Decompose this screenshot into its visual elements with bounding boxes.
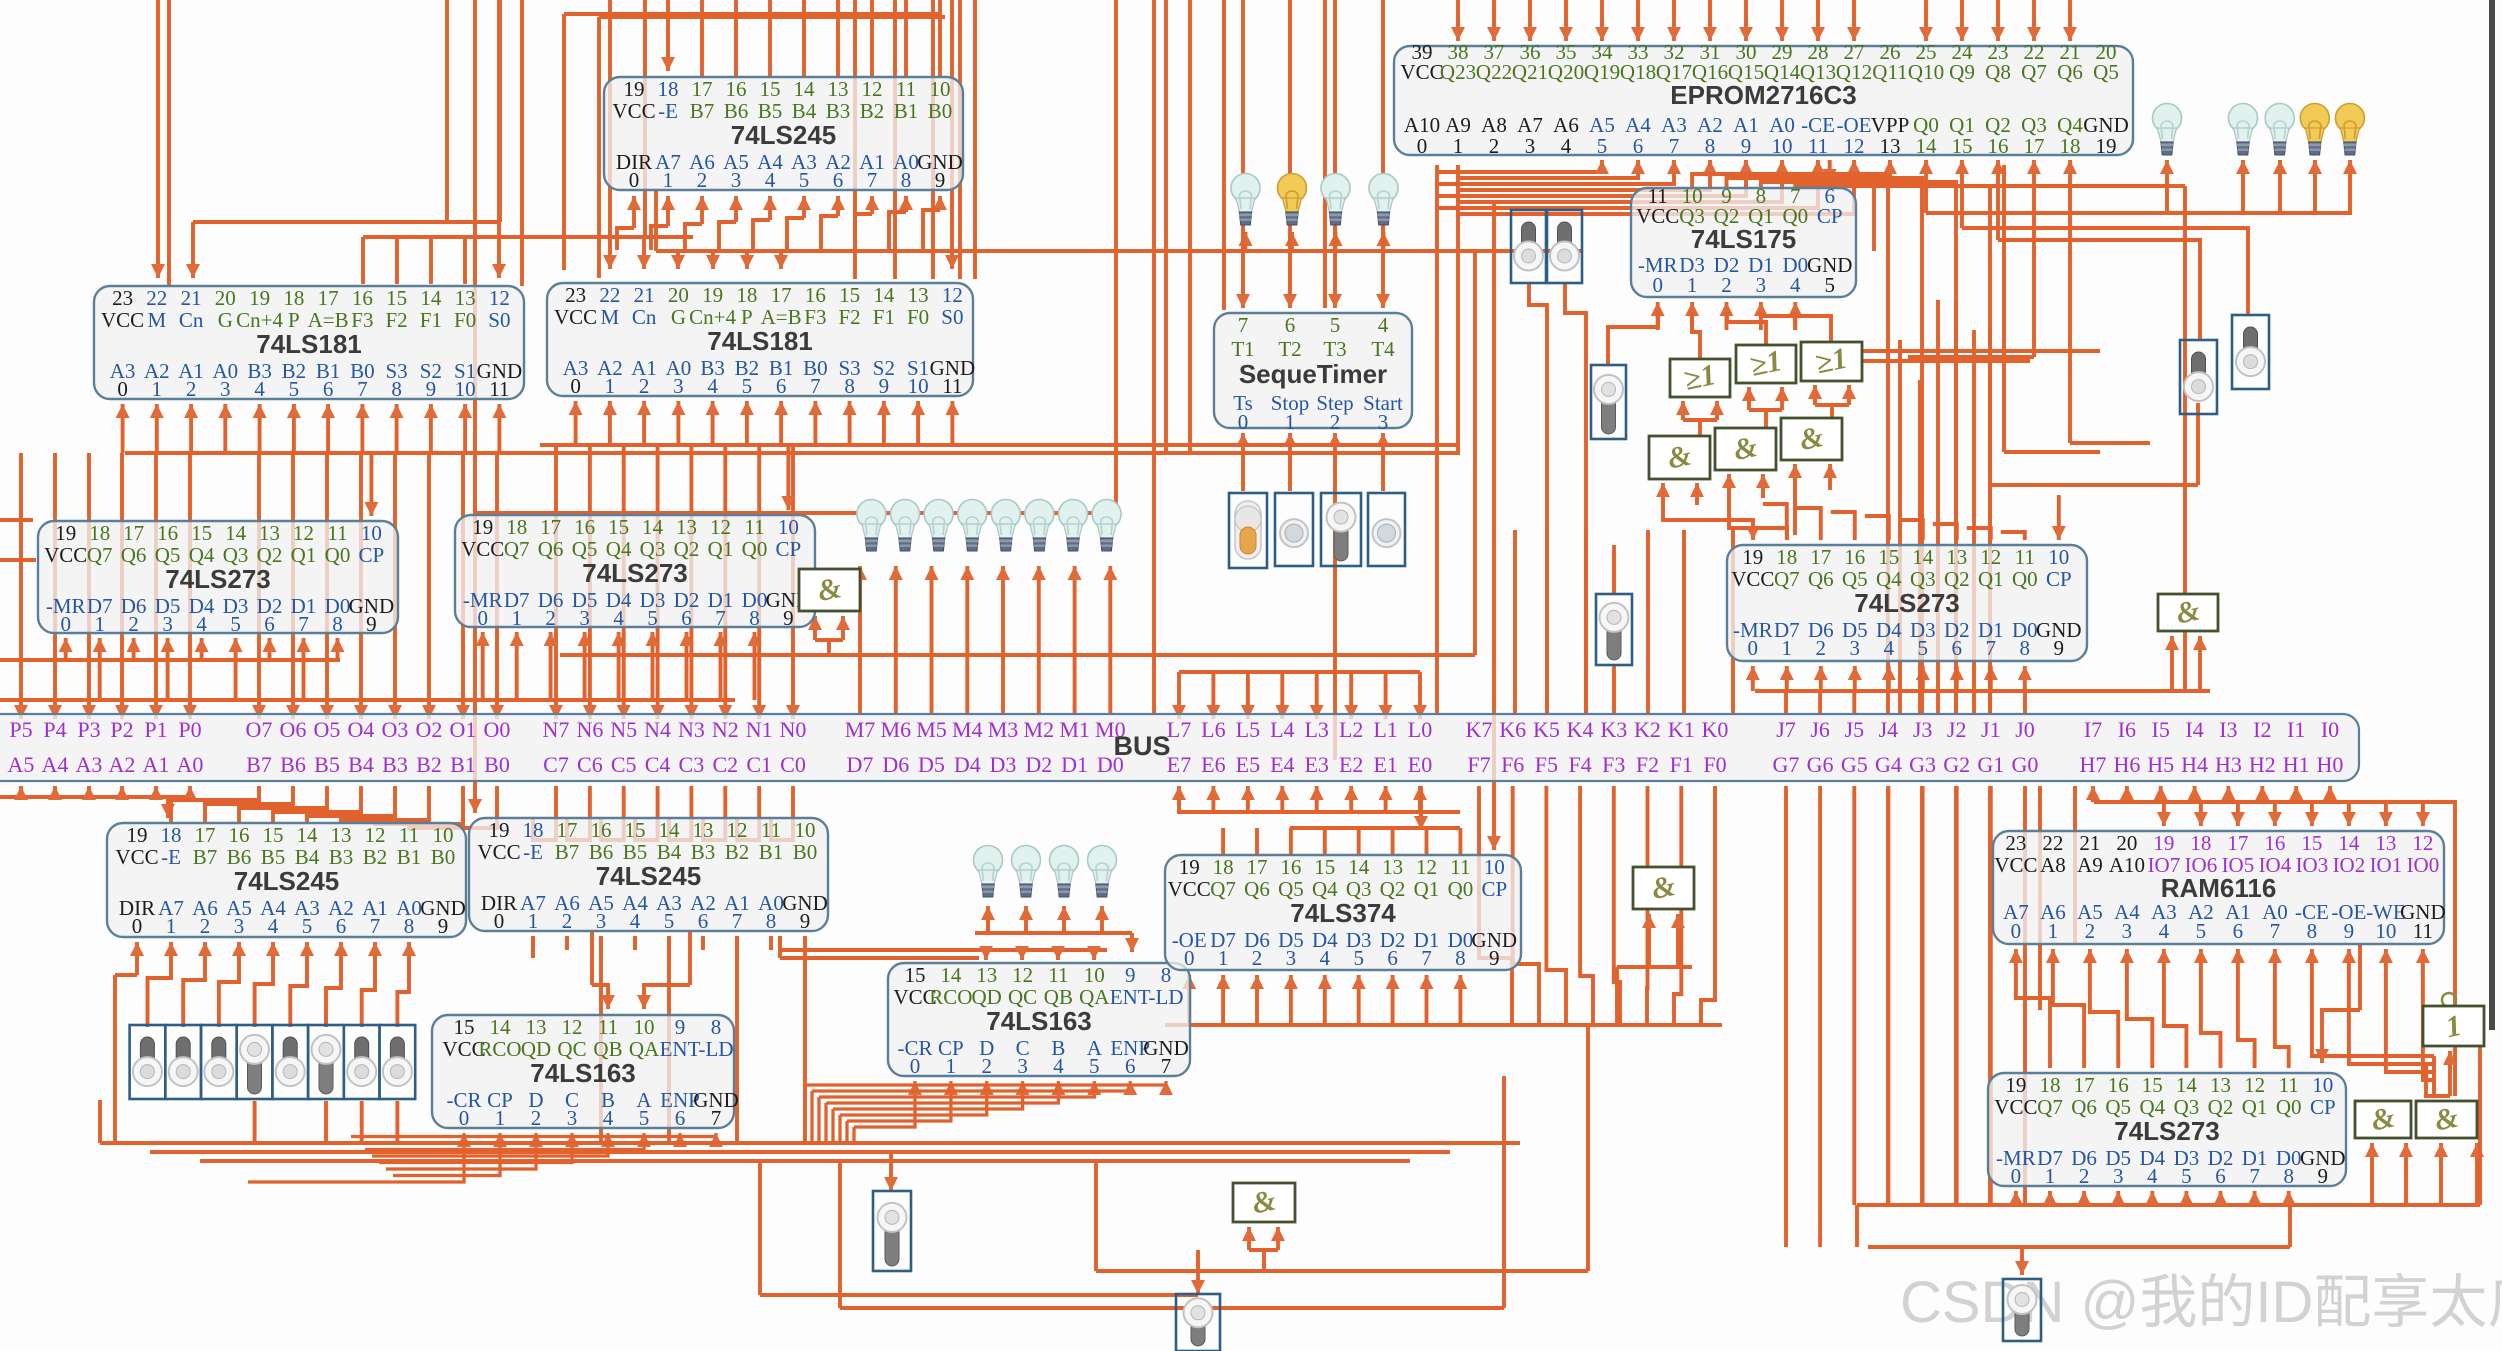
svg-text:A0: A0 (177, 752, 204, 777)
svg-text:19: 19 (249, 286, 270, 310)
svg-text:19: 19 (2005, 1073, 2026, 1097)
svg-text:7: 7 (357, 377, 368, 401)
svg-text:9: 9 (426, 377, 437, 401)
svg-text:8: 8 (1705, 134, 1716, 158)
svg-text:10: 10 (634, 1015, 655, 1039)
svg-text:IO0: IO0 (2407, 853, 2440, 877)
svg-text:3: 3 (673, 374, 684, 398)
wire (1988, 786, 1992, 1205)
svg-text:8: 8 (1455, 946, 1466, 970)
wire (223, 404, 227, 453)
wire (848, 401, 852, 445)
wire (2032, 0, 2036, 41)
svg-text:1: 1 (1687, 273, 1698, 297)
wire (1584, 530, 1588, 714)
wire (531, 936, 535, 950)
gate G8 and (1633, 867, 1694, 909)
svg-text:F1: F1 (420, 308, 442, 332)
wire (2091, 786, 2095, 802)
wire (592, 985, 608, 1009)
wire (200, 1159, 1410, 1163)
svg-text:12: 12 (2244, 1073, 2265, 1097)
svg-text:74LS273: 74LS273 (582, 558, 688, 588)
chip 74LS163 U12 (888, 963, 1190, 1078)
wire (0, 518, 33, 522)
svg-text:18: 18 (2060, 134, 2081, 158)
wire (1246, 672, 1250, 719)
svg-text:16: 16 (726, 77, 747, 101)
wire (2349, 949, 2434, 1064)
svg-text:B3: B3 (382, 752, 408, 777)
svg-text:0: 0 (1238, 410, 1249, 434)
svg-text:11: 11 (327, 521, 347, 545)
wire (802, 0, 806, 77)
svg-text:VCC: VCC (1168, 877, 1211, 901)
svg-text:I7: I7 (2084, 717, 2102, 742)
svg-text:18: 18 (506, 515, 527, 539)
svg-text:8: 8 (2307, 919, 2318, 943)
svg-text:2: 2 (545, 606, 556, 630)
svg-text:12: 12 (727, 818, 748, 842)
svg-text:10: 10 (2375, 919, 2396, 943)
svg-text:4: 4 (1320, 946, 1331, 970)
svg-text:K6: K6 (1499, 717, 1526, 742)
svg-text:74LS181: 74LS181 (256, 329, 362, 359)
wire (597, 17, 601, 278)
wire (1333, 0, 1337, 308)
svg-text:K0: K0 (1702, 717, 1729, 742)
svg-text:L1: L1 (1373, 717, 1397, 742)
svg-text:M: M (601, 305, 620, 329)
wire (1458, 975, 1462, 1025)
wire (1747, 387, 1751, 410)
wire (1196, 1250, 1200, 1264)
svg-text:6: 6 (776, 374, 787, 398)
wire (481, 632, 485, 700)
wire (1853, 666, 1857, 691)
svg-text:I2: I2 (2253, 717, 2271, 742)
svg-text:≥1: ≥1 (1747, 344, 1785, 383)
svg-text:5: 5 (1330, 313, 1341, 337)
svg-text:7: 7 (715, 606, 726, 630)
svg-text:A3: A3 (76, 752, 103, 777)
svg-text:CP: CP (2310, 1095, 2336, 1119)
svg-text:D5: D5 (918, 752, 945, 777)
switch SK1 (165, 1025, 201, 1099)
svg-text:2: 2 (697, 168, 708, 192)
svg-text:10: 10 (2048, 545, 2069, 569)
svg-text:L2: L2 (1339, 717, 1363, 742)
wire (2127, 949, 2152, 1068)
svg-text:4: 4 (1053, 1054, 1064, 1078)
svg-text:G5: G5 (1841, 752, 1868, 777)
svg-text:6: 6 (833, 168, 844, 192)
wire (1323, 975, 1327, 1025)
wire (847, 1081, 951, 1121)
svg-text:18: 18 (89, 521, 110, 545)
svg-text:F0: F0 (454, 308, 476, 332)
svg-text:2: 2 (639, 374, 650, 398)
wire (429, 237, 433, 284)
chip RAM6116 U16 (1993, 831, 2446, 944)
wire (2322, 1010, 2360, 1063)
svg-text:4: 4 (2147, 1164, 2158, 1188)
wire (0, 698, 735, 702)
wire (219, 942, 239, 1027)
svg-text:16: 16 (805, 283, 826, 307)
svg-text:11: 11 (2279, 1073, 2299, 1097)
wire (1130, 933, 1134, 952)
svg-text:E4: E4 (1270, 752, 1294, 777)
svg-text:6: 6 (1387, 946, 1398, 970)
svg-text:12: 12 (1012, 963, 1033, 987)
svg-text:D7: D7 (847, 752, 874, 777)
svg-text:11: 11 (598, 1015, 618, 1039)
wire (1580, 786, 1593, 1025)
wire (2348, 160, 2352, 213)
wire (98, 638, 102, 700)
svg-text:A10: A10 (2109, 853, 2145, 877)
svg-text:B0: B0 (431, 845, 456, 869)
wire (1280, 786, 1284, 812)
wire (2201, 949, 2221, 1068)
wire (703, 786, 725, 840)
wire (567, 786, 590, 840)
wire (1458, 160, 1854, 214)
svg-text:4: 4 (1884, 636, 1895, 660)
wire (2253, 1191, 2257, 1205)
svg-text:≥1: ≥1 (1681, 358, 1719, 397)
wire (365, 1133, 644, 1150)
svg-text:O4: O4 (348, 717, 375, 742)
wire (831, 1109, 834, 1143)
wire (1437, 160, 1602, 172)
wire (1960, 0, 1964, 41)
svg-text:0: 0 (60, 612, 71, 636)
wire (1458, 160, 1638, 178)
svg-text:1: 1 (528, 909, 539, 933)
svg-text:3: 3 (1756, 273, 1767, 297)
svg-text:8: 8 (711, 1015, 722, 1039)
wire (667, 936, 671, 958)
svg-text:9: 9 (800, 909, 811, 933)
wire (1479, 786, 1512, 1025)
svg-text:10: 10 (361, 521, 382, 545)
wire (1073, 566, 1077, 714)
chip SequeTimer U6 (1214, 313, 1412, 434)
svg-text:14: 14 (225, 521, 247, 545)
svg-text:Q1: Q1 (708, 537, 734, 561)
wire (2070, 441, 2150, 445)
wire (2347, 802, 2351, 826)
gate G9 and (2158, 593, 2218, 631)
svg-text:Q1: Q1 (291, 543, 317, 567)
svg-text:M2: M2 (1024, 717, 1055, 742)
wire (2238, 949, 2255, 1068)
wire (473, 0, 477, 813)
svg-text:7: 7 (1986, 636, 1997, 660)
svg-text:Q21: Q21 (1512, 60, 1548, 84)
svg-text:A1: A1 (143, 752, 170, 777)
wire (2020, 1247, 2024, 1275)
wire (1255, 975, 1259, 1025)
svg-text:9: 9 (366, 612, 377, 636)
svg-text:13: 13 (1946, 545, 1967, 569)
wire (154, 453, 158, 719)
svg-text:-E: -E (523, 840, 543, 864)
wire (836, 0, 840, 77)
svg-text:9: 9 (783, 606, 794, 630)
wire (1793, 490, 1797, 535)
wire (445, 0, 449, 222)
svg-text:6: 6 (2215, 1164, 2226, 1188)
wire (617, 632, 621, 700)
wire (1692, 174, 1888, 714)
svg-text:A8: A8 (2040, 853, 2066, 877)
wire (1672, 0, 1676, 41)
lamp M1 (1059, 500, 1088, 552)
wire (1692, 312, 1700, 359)
wire (395, 1101, 399, 1143)
svg-text:VCC: VCC (1994, 853, 2037, 877)
wire (1179, 670, 1420, 674)
svg-text:14: 14 (1916, 134, 1938, 158)
svg-text:7: 7 (711, 1106, 722, 1130)
gate G10 and (1233, 1183, 1295, 1222)
wire (1289, 975, 1293, 1025)
wire (1037, 566, 1041, 714)
svg-text:9: 9 (1741, 134, 1752, 158)
lamp M0 (1092, 500, 1121, 552)
wire (1492, 0, 1496, 41)
wire (735, 936, 739, 958)
wire (554, 445, 558, 719)
svg-text:E5: E5 (1236, 752, 1260, 777)
wire (2053, 949, 2084, 1068)
wire (2310, 802, 2314, 826)
wire (290, 942, 307, 1027)
wire (1872, 188, 1876, 251)
wire (815, 638, 843, 642)
wire (1288, 0, 1292, 308)
svg-text:P1: P1 (144, 717, 167, 742)
svg-text:7: 7 (1238, 313, 1249, 337)
switch SK0 (130, 1025, 166, 1099)
svg-text:74LS175: 74LS175 (1691, 224, 1797, 254)
svg-text:8: 8 (332, 612, 343, 636)
svg-text:0: 0 (477, 606, 488, 630)
svg-text:3: 3 (1850, 636, 1861, 660)
svg-text:Q0: Q0 (1448, 877, 1474, 901)
svg-text:P5: P5 (9, 717, 32, 742)
wire (1793, 464, 1797, 490)
wire (1708, 0, 1712, 41)
svg-text:23: 23 (112, 286, 133, 310)
switch SWc (1321, 493, 1361, 566)
wire (200, 638, 204, 660)
wire (1357, 828, 1361, 855)
svg-text:16: 16 (1844, 545, 1865, 569)
wire (734, 196, 738, 222)
wire (1600, 0, 1604, 41)
svg-text:12: 12 (1416, 855, 1437, 879)
wire (1513, 530, 1517, 714)
svg-text:F0: F0 (1703, 752, 1726, 777)
wire (1865, 516, 1889, 540)
wire (53, 453, 57, 719)
wire (497, 404, 501, 453)
wire (1813, 385, 1817, 405)
svg-text:11: 11 (942, 374, 962, 398)
wire (882, 401, 886, 445)
svg-text:Q11: Q11 (1872, 60, 1907, 84)
wire (560, 653, 1475, 657)
svg-text:6: 6 (1952, 636, 1963, 660)
wire (642, 237, 646, 269)
wire (1289, 828, 1293, 855)
svg-text:Q6: Q6 (2071, 1095, 2097, 1119)
svg-text:2: 2 (200, 914, 211, 938)
wire (2165, 160, 2169, 213)
wire (1586, 1025, 1590, 1271)
svg-text:17: 17 (2227, 831, 2248, 855)
wire (1954, 300, 1958, 714)
svg-text:13: 13 (526, 1015, 547, 1039)
svg-text:O7: O7 (246, 717, 273, 742)
svg-text:Q7: Q7 (2037, 1095, 2063, 1119)
svg-text:11: 11 (761, 818, 781, 842)
svg-text:8: 8 (749, 606, 760, 630)
svg-text:H1: H1 (2283, 752, 2310, 777)
wire (841, 616, 845, 640)
svg-text:13: 13 (259, 521, 280, 545)
svg-text:3: 3 (1378, 410, 1389, 434)
wire (1815, 403, 1849, 407)
wire (601, 786, 624, 840)
wire (239, 786, 327, 823)
svg-text:P0: P0 (178, 717, 201, 742)
svg-text:VCC: VCC (101, 308, 144, 332)
wire (2038, 786, 2042, 1010)
svg-text:22: 22 (146, 286, 167, 310)
wire (1492, 780, 1496, 850)
svg-text:VCC: VCC (612, 99, 655, 123)
svg-text:17: 17 (195, 823, 216, 847)
wire (1435, 165, 1439, 714)
wire (1701, 786, 1715, 1025)
switch SW7 (873, 1191, 911, 1271)
wire (1761, 182, 1956, 714)
wire (1828, 464, 1832, 490)
chip 74LS163 U11 (432, 1015, 739, 1130)
wire (1852, 691, 1856, 714)
wire (1955, 786, 1959, 1205)
wire (1656, 302, 1660, 330)
svg-text:I3: I3 (2219, 717, 2237, 742)
svg-text:4: 4 (2159, 919, 2170, 943)
svg-text:10: 10 (1084, 963, 1105, 987)
wire (700, 0, 704, 77)
svg-text:Q9: Q9 (1949, 60, 1975, 84)
svg-text:E3: E3 (1304, 752, 1328, 777)
wire (817, 1097, 820, 1143)
svg-text:0: 0 (1652, 273, 1663, 297)
svg-text:15: 15 (1878, 545, 1899, 569)
wire (1276, 1227, 1280, 1250)
wire (826, 1081, 1058, 1103)
wire (1990, 184, 2185, 188)
wire (1246, 786, 1250, 812)
wire (1818, 691, 1822, 714)
svg-text:12: 12 (1980, 545, 2001, 569)
svg-text:J1: J1 (1981, 717, 2001, 742)
wire (2150, 1191, 2154, 1205)
wire (1425, 828, 1429, 855)
svg-text:S0: S0 (941, 305, 963, 329)
wire (1262, 1250, 1266, 1271)
chip 74LS245 U9 (107, 823, 466, 938)
chip 74LS181 U2 (547, 283, 975, 398)
wire (540, 443, 1460, 447)
svg-text:74LS181: 74LS181 (707, 326, 813, 356)
wire (1744, 0, 1748, 41)
svg-text:16: 16 (229, 823, 250, 847)
svg-text:D4: D4 (954, 752, 981, 777)
svg-text:5: 5 (647, 606, 658, 630)
svg-text:14: 14 (2176, 1073, 2198, 1097)
wire (1357, 975, 1361, 1025)
lamp R5 (2335, 104, 2364, 156)
svg-text:N4: N4 (644, 717, 671, 742)
wire (1816, 0, 1820, 41)
svg-text:F5: F5 (1535, 752, 1558, 777)
wire (2125, 786, 2129, 802)
wire (779, 250, 783, 269)
svg-text:74LS374: 74LS374 (1290, 898, 1396, 928)
svg-text:Q23: Q23 (1440, 60, 1476, 84)
wire (1152, 0, 1156, 714)
wire (1645, 786, 1649, 1025)
wire (805, 1081, 1166, 1085)
wire (193, 220, 500, 224)
svg-text:3: 3 (1286, 946, 1297, 970)
svg-text:C3: C3 (679, 752, 705, 777)
wire (1921, 666, 1925, 691)
svg-text:J6: J6 (1810, 717, 1830, 742)
switch SW6 (1596, 594, 1632, 665)
svg-text:74LS163: 74LS163 (530, 1058, 636, 1088)
svg-text:15: 15 (2301, 831, 2322, 855)
wire (1546, 786, 1566, 1025)
wire (520, 0, 524, 286)
svg-text:0: 0 (1184, 946, 1195, 970)
wire (1211, 786, 1215, 812)
wire (2219, 1191, 2223, 1205)
wire (1887, 666, 1891, 691)
wire (787, 218, 804, 250)
svg-text:G3: G3 (1909, 752, 1936, 777)
svg-text:74LS245: 74LS245 (596, 861, 702, 891)
wire (1780, 387, 1784, 410)
svg-text:F2: F2 (1636, 752, 1659, 777)
svg-text:G6: G6 (1807, 752, 1834, 777)
svg-text:VCC: VCC (1994, 1095, 2037, 1119)
wire (248, 1180, 400, 1183)
wire (1989, 666, 1993, 691)
svg-text:H0: H0 (2317, 752, 2344, 777)
svg-text:12: 12 (365, 823, 386, 847)
svg-text:74LS273: 74LS273 (1854, 588, 1960, 618)
